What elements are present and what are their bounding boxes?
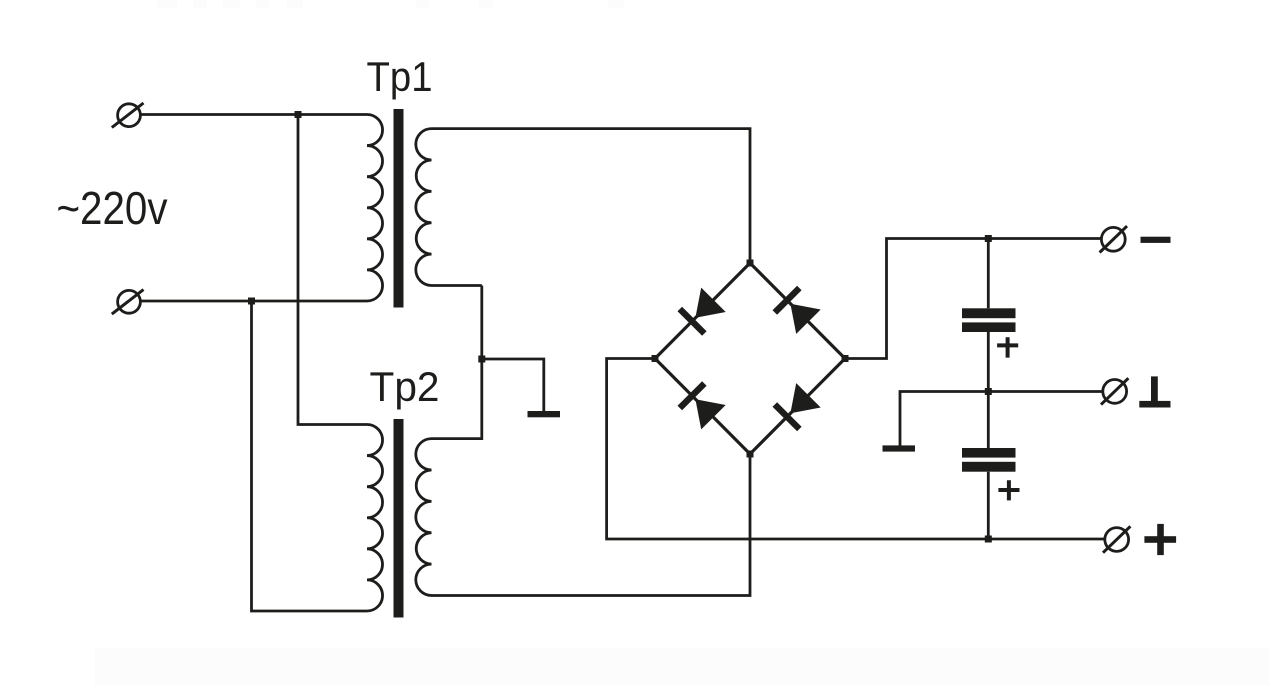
ground symbol (center tap) bbox=[528, 411, 561, 417]
wire: bridge right vertex to minus output bbox=[845, 239, 1101, 359]
node: junction middle rail bbox=[985, 388, 992, 395]
faint scan marks top bbox=[158, 0, 177, 8]
svg-text:~220v: ~220v bbox=[57, 182, 169, 234]
ground symbol (output common) bbox=[883, 445, 916, 451]
wire: capacitor chain vertical bbox=[987, 239, 990, 540]
diode VD2 (top-right) bbox=[773, 286, 821, 334]
wire: center tap between Tp1 and Tp2 secondaries bbox=[432, 285, 482, 438]
node: junction on input line 1 bbox=[295, 111, 302, 118]
label: plus sign bbox=[1144, 524, 1176, 555]
node: bridge right vertex bbox=[842, 355, 849, 362]
node: bridge top vertex bbox=[747, 260, 754, 267]
wire: bridge left vertex to plus output bbox=[607, 359, 1104, 540]
wire: input line 1 with Tp1 primary winding bbox=[141, 115, 383, 302]
wire: center tap to ground bbox=[482, 359, 544, 411]
diode VD4 (bottom-right) bbox=[773, 383, 821, 431]
transformer Tp1 secondary winding + wire to bridge top bbox=[416, 129, 750, 286]
capacitor C2 bbox=[962, 448, 1016, 472]
label: minus sign bbox=[1141, 237, 1171, 243]
terminal: common output bbox=[1101, 378, 1128, 404]
diode bridge outline bbox=[655, 263, 845, 454]
node: junction on input line 2 bbox=[248, 298, 255, 305]
svg-text:Tp1: Tp1 bbox=[367, 53, 433, 100]
terminal: plus output bbox=[1103, 526, 1130, 552]
terminal: input 2 bbox=[112, 290, 144, 315]
label: common (earth) sign bbox=[1139, 376, 1170, 407]
polarity + of C1 bbox=[997, 337, 1018, 357]
svg-text:Tp2: Tp2 bbox=[370, 363, 440, 410]
diode VD3 (bottom-left) bbox=[678, 381, 726, 429]
diode VD1 (top-left) bbox=[678, 288, 726, 336]
terminal: input 1 bbox=[112, 103, 144, 128]
faint scan band bottom bbox=[95, 648, 1270, 685]
capacitor C1 bbox=[962, 308, 1016, 332]
node: bridge left vertex bbox=[652, 355, 659, 362]
wire: middle (common) output bbox=[900, 392, 1103, 446]
terminal: minus output bbox=[1100, 226, 1127, 252]
wire: Tp2 primary winding with parallel feed wires bbox=[252, 115, 383, 612]
node: junction plus rail bbox=[985, 536, 992, 543]
transformer Tp2 secondary winding + wire to bridge bottom bbox=[416, 439, 750, 596]
transformer Tp2 core bbox=[394, 419, 404, 618]
node: center-tap junction bbox=[478, 356, 485, 363]
node: bridge bottom vertex bbox=[747, 451, 754, 458]
node: junction minus rail bbox=[985, 235, 992, 242]
transformer Tp1 core bbox=[394, 109, 404, 308]
polarity + of C2 bbox=[998, 480, 1019, 500]
